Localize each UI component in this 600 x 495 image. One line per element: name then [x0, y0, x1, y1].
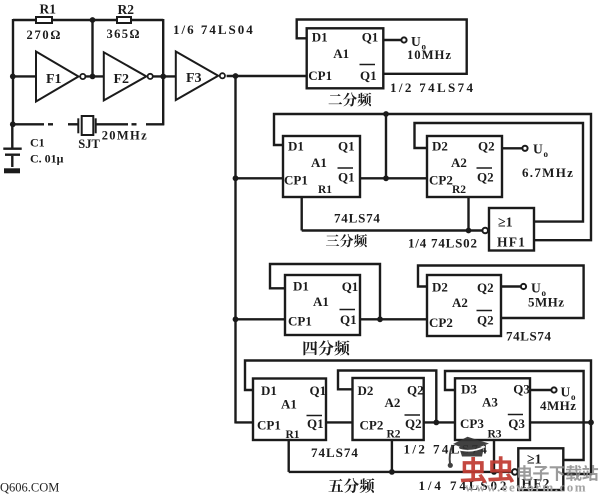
nor-gate HF2	[518, 448, 563, 490]
svg-text:F1: F1	[46, 72, 62, 87]
svg-text:1/4 74LS02: 1/4 74LS02	[408, 236, 478, 251]
watermark graduate cap	[448, 437, 489, 468]
svg-text:4MHz: 4MHz	[540, 398, 576, 413]
wire bus to CP1 div3	[236, 177, 284, 179]
svg-text:o: o	[544, 149, 549, 159]
node R2 reset junction	[466, 228, 472, 234]
resistor R2	[117, 17, 131, 23]
svg-text:Q2: Q2	[478, 139, 495, 154]
ground	[11, 156, 13, 167]
svg-text:A1: A1	[281, 397, 297, 412]
wire bus corner to CP1 div5	[236, 421, 254, 423]
wire top rail	[13, 19, 163, 21]
svg-text:CP2: CP2	[429, 173, 453, 188]
svg-text:D3: D3	[461, 382, 477, 397]
svg-text:SJT: SJT	[78, 137, 100, 151]
svg-text:1/2 74LS74: 1/2 74LS74	[390, 80, 475, 95]
svg-text:Q2: Q2	[477, 313, 494, 328]
svg-text:Q2: Q2	[407, 383, 424, 398]
svg-text:A2: A2	[451, 155, 467, 170]
wire D2 loop div5	[338, 371, 436, 423]
flip-flop A2 div4 box	[427, 275, 501, 336]
svg-text:D2: D2	[432, 280, 448, 295]
label div2 二分频	[329, 94, 342, 104]
svg-text:74LS74: 74LS74	[506, 329, 552, 344]
svg-text:CP1: CP1	[257, 418, 281, 433]
label div5 五分频	[328, 479, 343, 492]
svg-text:U: U	[411, 34, 421, 49]
svg-text:R3: R3	[488, 429, 502, 441]
flip-flop A2 div3 box	[427, 136, 502, 197]
svg-text:CP1: CP1	[288, 314, 312, 329]
terminal Uo div5	[551, 387, 556, 392]
watermark 虫虫 red	[461, 457, 487, 483]
node loop-Qbar junction div4	[377, 316, 383, 322]
wire Q3 output div5	[530, 389, 551, 391]
svg-text:Q1: Q1	[342, 279, 359, 294]
node bus to div3 CP1	[233, 175, 239, 181]
svg-text:A1: A1	[311, 155, 327, 170]
label div4 四分频	[303, 341, 317, 355]
svg-text:Q1: Q1	[338, 139, 355, 154]
wire F2 to F3	[153, 75, 176, 77]
inverter F2	[104, 52, 147, 100]
terminal Uo div4	[521, 284, 526, 289]
svg-text:R1: R1	[286, 429, 300, 441]
flip-flop A2 div5 box	[353, 378, 424, 440]
watermark 电子下载站	[518, 465, 533, 481]
svg-text:HF1: HF1	[497, 235, 526, 250]
wire Q1bar to CP2 div4	[360, 318, 427, 320]
wire Q2 output div4	[501, 285, 521, 287]
wire Q1bar to CP2 div5	[326, 421, 353, 423]
wire R1 reset div3	[301, 197, 303, 231]
terminal Uo div3	[522, 146, 527, 151]
svg-text:R1: R1	[40, 2, 57, 17]
wire loop to Q1bar wire	[385, 114, 387, 178]
svg-text:U: U	[533, 142, 543, 157]
wire Q3bar to outer loop	[530, 421, 591, 423]
resistor R1	[36, 17, 52, 23]
svg-text:10MHz: 10MHz	[407, 48, 452, 62]
svg-text:270Ω: 270Ω	[27, 28, 63, 42]
svg-text:365Ω: 365Ω	[107, 27, 141, 41]
svg-text:F2: F2	[114, 72, 130, 87]
node R3 reset junction div5	[491, 469, 497, 475]
svg-text:≥1: ≥1	[527, 453, 542, 468]
wire F3 output to CP1	[227, 75, 307, 77]
inverter F3	[176, 52, 218, 101]
wire crystal rail right segment	[96, 123, 128, 125]
wire D1 loop div5	[245, 361, 591, 475]
svg-text:R2: R2	[387, 429, 401, 441]
flip-flop A1 div3 box	[283, 136, 360, 197]
svg-text:R2: R2	[118, 2, 135, 17]
wire D1 loop div3	[274, 114, 591, 240]
node Q3bar-outerloop junction	[588, 420, 594, 426]
wire left vertical	[12, 19, 14, 125]
terminal Uo div2	[401, 37, 406, 42]
wire reset rail div5	[289, 471, 514, 473]
svg-text:Q1: Q1	[338, 170, 355, 185]
node R1-R2 junction	[90, 17, 96, 23]
svg-text:74LS74: 74LS74	[334, 211, 381, 226]
wire Q2 output div3	[502, 147, 522, 149]
node main bus top	[233, 73, 239, 79]
svg-text:Q2: Q2	[477, 280, 494, 295]
wire D2 loop div4	[418, 266, 584, 319]
wire Q1bar to D1 feedback	[297, 20, 467, 74]
wire R1R2 junction to F1 output	[91, 20, 93, 76]
wire crystal rail left segment	[13, 123, 44, 125]
wire Q1 output	[383, 39, 401, 41]
svg-text:Q3: Q3	[513, 382, 530, 397]
svg-text:C1: C1	[30, 136, 45, 150]
wire R2 reset div5	[391, 440, 393, 472]
wire R1 reset div5	[288, 440, 290, 472]
svg-text:CP1: CP1	[284, 173, 308, 188]
svg-text:Q1: Q1	[360, 68, 377, 83]
wire reset rail div3	[302, 229, 484, 231]
svg-text:C. 01μ: C. 01μ	[30, 152, 64, 166]
wire main clock bus	[234, 76, 236, 424]
wire D2 loop div3	[415, 123, 584, 222]
svg-text:D2: D2	[432, 139, 448, 154]
flip-flop A3 div5 box	[455, 378, 530, 440]
capacitor C1	[11, 124, 13, 148]
wire Q2bar to CP3 div5	[424, 421, 455, 423]
svg-text:D2: D2	[358, 383, 374, 398]
svg-text:20MHz: 20MHz	[102, 129, 148, 143]
svg-text:CP1: CP1	[308, 68, 332, 83]
svg-text:Q1: Q1	[362, 30, 379, 45]
svg-text:74LS74: 74LS74	[311, 445, 359, 460]
svg-text:Q3: Q3	[508, 416, 525, 431]
wire Q1bar to CP2 div3	[360, 177, 427, 179]
svg-text:5MHz: 5MHz	[528, 295, 564, 310]
wire R2 right to crystal rail	[162, 19, 164, 125]
wire D1 loop div4	[270, 264, 380, 319]
wire bus to CP1 div4	[236, 318, 286, 320]
svg-text:R2: R2	[452, 184, 466, 196]
inverter F1	[36, 52, 79, 102]
svg-text:D1: D1	[312, 30, 328, 45]
svg-text:Q1: Q1	[310, 383, 327, 398]
svg-text:A2: A2	[452, 295, 468, 310]
svg-text:D1: D1	[261, 383, 277, 398]
svg-text:U: U	[531, 281, 541, 296]
svg-text:R1: R1	[318, 184, 332, 196]
svg-text:CP3: CP3	[460, 416, 484, 431]
node bus to div4 CP1	[233, 316, 239, 322]
wire R3 reset div5	[493, 440, 495, 472]
node F1 input	[10, 74, 16, 80]
flip-flop A1 div4 box	[285, 275, 360, 335]
nor-gate HF1	[489, 208, 534, 251]
flip-flop A1 div2 box	[307, 28, 384, 88]
svg-text:≥1: ≥1	[498, 216, 513, 231]
svg-text:6.7MHz: 6.7MHz	[522, 165, 574, 180]
svg-text:A1: A1	[333, 46, 349, 61]
svg-text:www.eeworm.com: www.eeworm.com	[465, 480, 587, 495]
node loop-Qbar junction bottom	[383, 175, 389, 181]
svg-text:A1: A1	[313, 294, 329, 309]
node F1 output	[90, 74, 96, 80]
label div3 三分频	[326, 235, 339, 246]
svg-text:CP2: CP2	[429, 315, 453, 330]
wire F1 input	[13, 75, 36, 77]
node loop-Qbar junction top	[383, 111, 389, 117]
svg-text:Q606.COM: Q606.COM	[0, 481, 59, 495]
svg-text:D1: D1	[293, 279, 309, 294]
svg-text:Q2: Q2	[405, 416, 422, 431]
svg-text:Q2: Q2	[477, 170, 494, 185]
svg-text:A3: A3	[482, 395, 498, 410]
wire D3 loop div5	[445, 371, 584, 460]
svg-text:D1: D1	[288, 139, 304, 154]
svg-text:1/6 74LS04: 1/6 74LS04	[173, 22, 255, 37]
svg-text:A2: A2	[385, 395, 401, 410]
wire R2 reset div3	[467, 197, 469, 231]
node R2 reset junction div5	[389, 469, 395, 475]
flip-flop A1 div5 box	[253, 379, 326, 441]
crystal SJT 20MHz	[77, 118, 79, 133]
node D2loop-Q2bar junction div5	[433, 420, 439, 426]
svg-text:F3: F3	[186, 71, 202, 86]
node crystal rail left	[10, 121, 16, 127]
svg-text:Q1: Q1	[340, 312, 357, 327]
svg-text:Q1: Q1	[307, 416, 324, 431]
svg-text:CP2: CP2	[360, 418, 384, 433]
node F2 output	[160, 74, 166, 80]
wire F1 to F2	[85, 75, 103, 77]
